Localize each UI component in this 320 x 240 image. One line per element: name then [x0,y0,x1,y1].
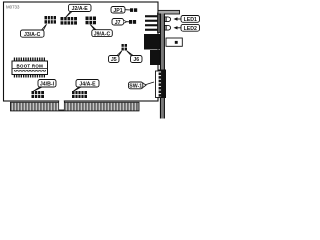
svg-text:J2/A-E: J2/A-E [72,6,89,12]
label J3/A-C [21,24,47,38]
svg-text:J6: J6 [133,57,139,63]
svg-text:LED2: LED2 [184,26,197,32]
lower black box (connector base) [150,50,163,65]
label J7 + jumper E [112,19,136,26]
label JP1 + jumper D [111,7,137,14]
label J2/A-E [66,4,92,17]
label J5 [109,51,122,63]
svg-text:J4/B-I: J4/B-I [40,82,55,88]
svg-text:LED1: LED1 [184,17,197,23]
jumper block H [72,91,87,98]
label LED1 [174,16,200,23]
label J4/A-E [73,80,99,92]
4-pin connector at card edge [145,13,162,33]
label SW-1 [129,82,155,90]
BOOT ROM socket [12,58,48,78]
label J9/A-C [90,25,112,38]
BNC body (black box) [144,34,162,50]
jumper F (J5/J6) [122,44,128,51]
jumper block A [45,16,57,24]
LED 1 on bracket [165,17,171,22]
svg-text:J7: J7 [115,20,121,26]
bracket top flange [158,10,180,14]
svg-text:J5: J5 [111,57,117,63]
bottom pins [14,74,45,78]
svg-text:BOOT ROM: BOOT ROM [17,64,44,69]
svg-text:J9/A-C: J9/A-C [94,31,111,37]
top pins [14,58,45,62]
LED 2 on bracket [165,25,171,30]
socket body [12,61,48,75]
bracket bar [160,14,164,119]
DIP switch SW1 [156,70,167,99]
jumper block B [61,17,78,25]
svg-text:J4/A-E: J4/A-E [79,82,96,88]
svg-text:JP1: JP1 [113,8,122,14]
label J6 [127,51,142,63]
label J4/B-I [33,80,56,92]
edge connector key notch [59,101,65,110]
BNC barrel through bracket [166,38,182,46]
svg-text:SW-1: SW-1 [129,84,142,90]
jumper block G [32,91,45,98]
socket holes row [14,70,45,71]
svg-text:M0733: M0733 [6,4,20,9]
jumper block C [86,17,97,25]
card outline [4,2,159,101]
svg-text:J3/A-C: J3/A-C [24,32,41,38]
label LED2 [174,24,200,31]
edge connector segment 1 [11,100,140,111]
